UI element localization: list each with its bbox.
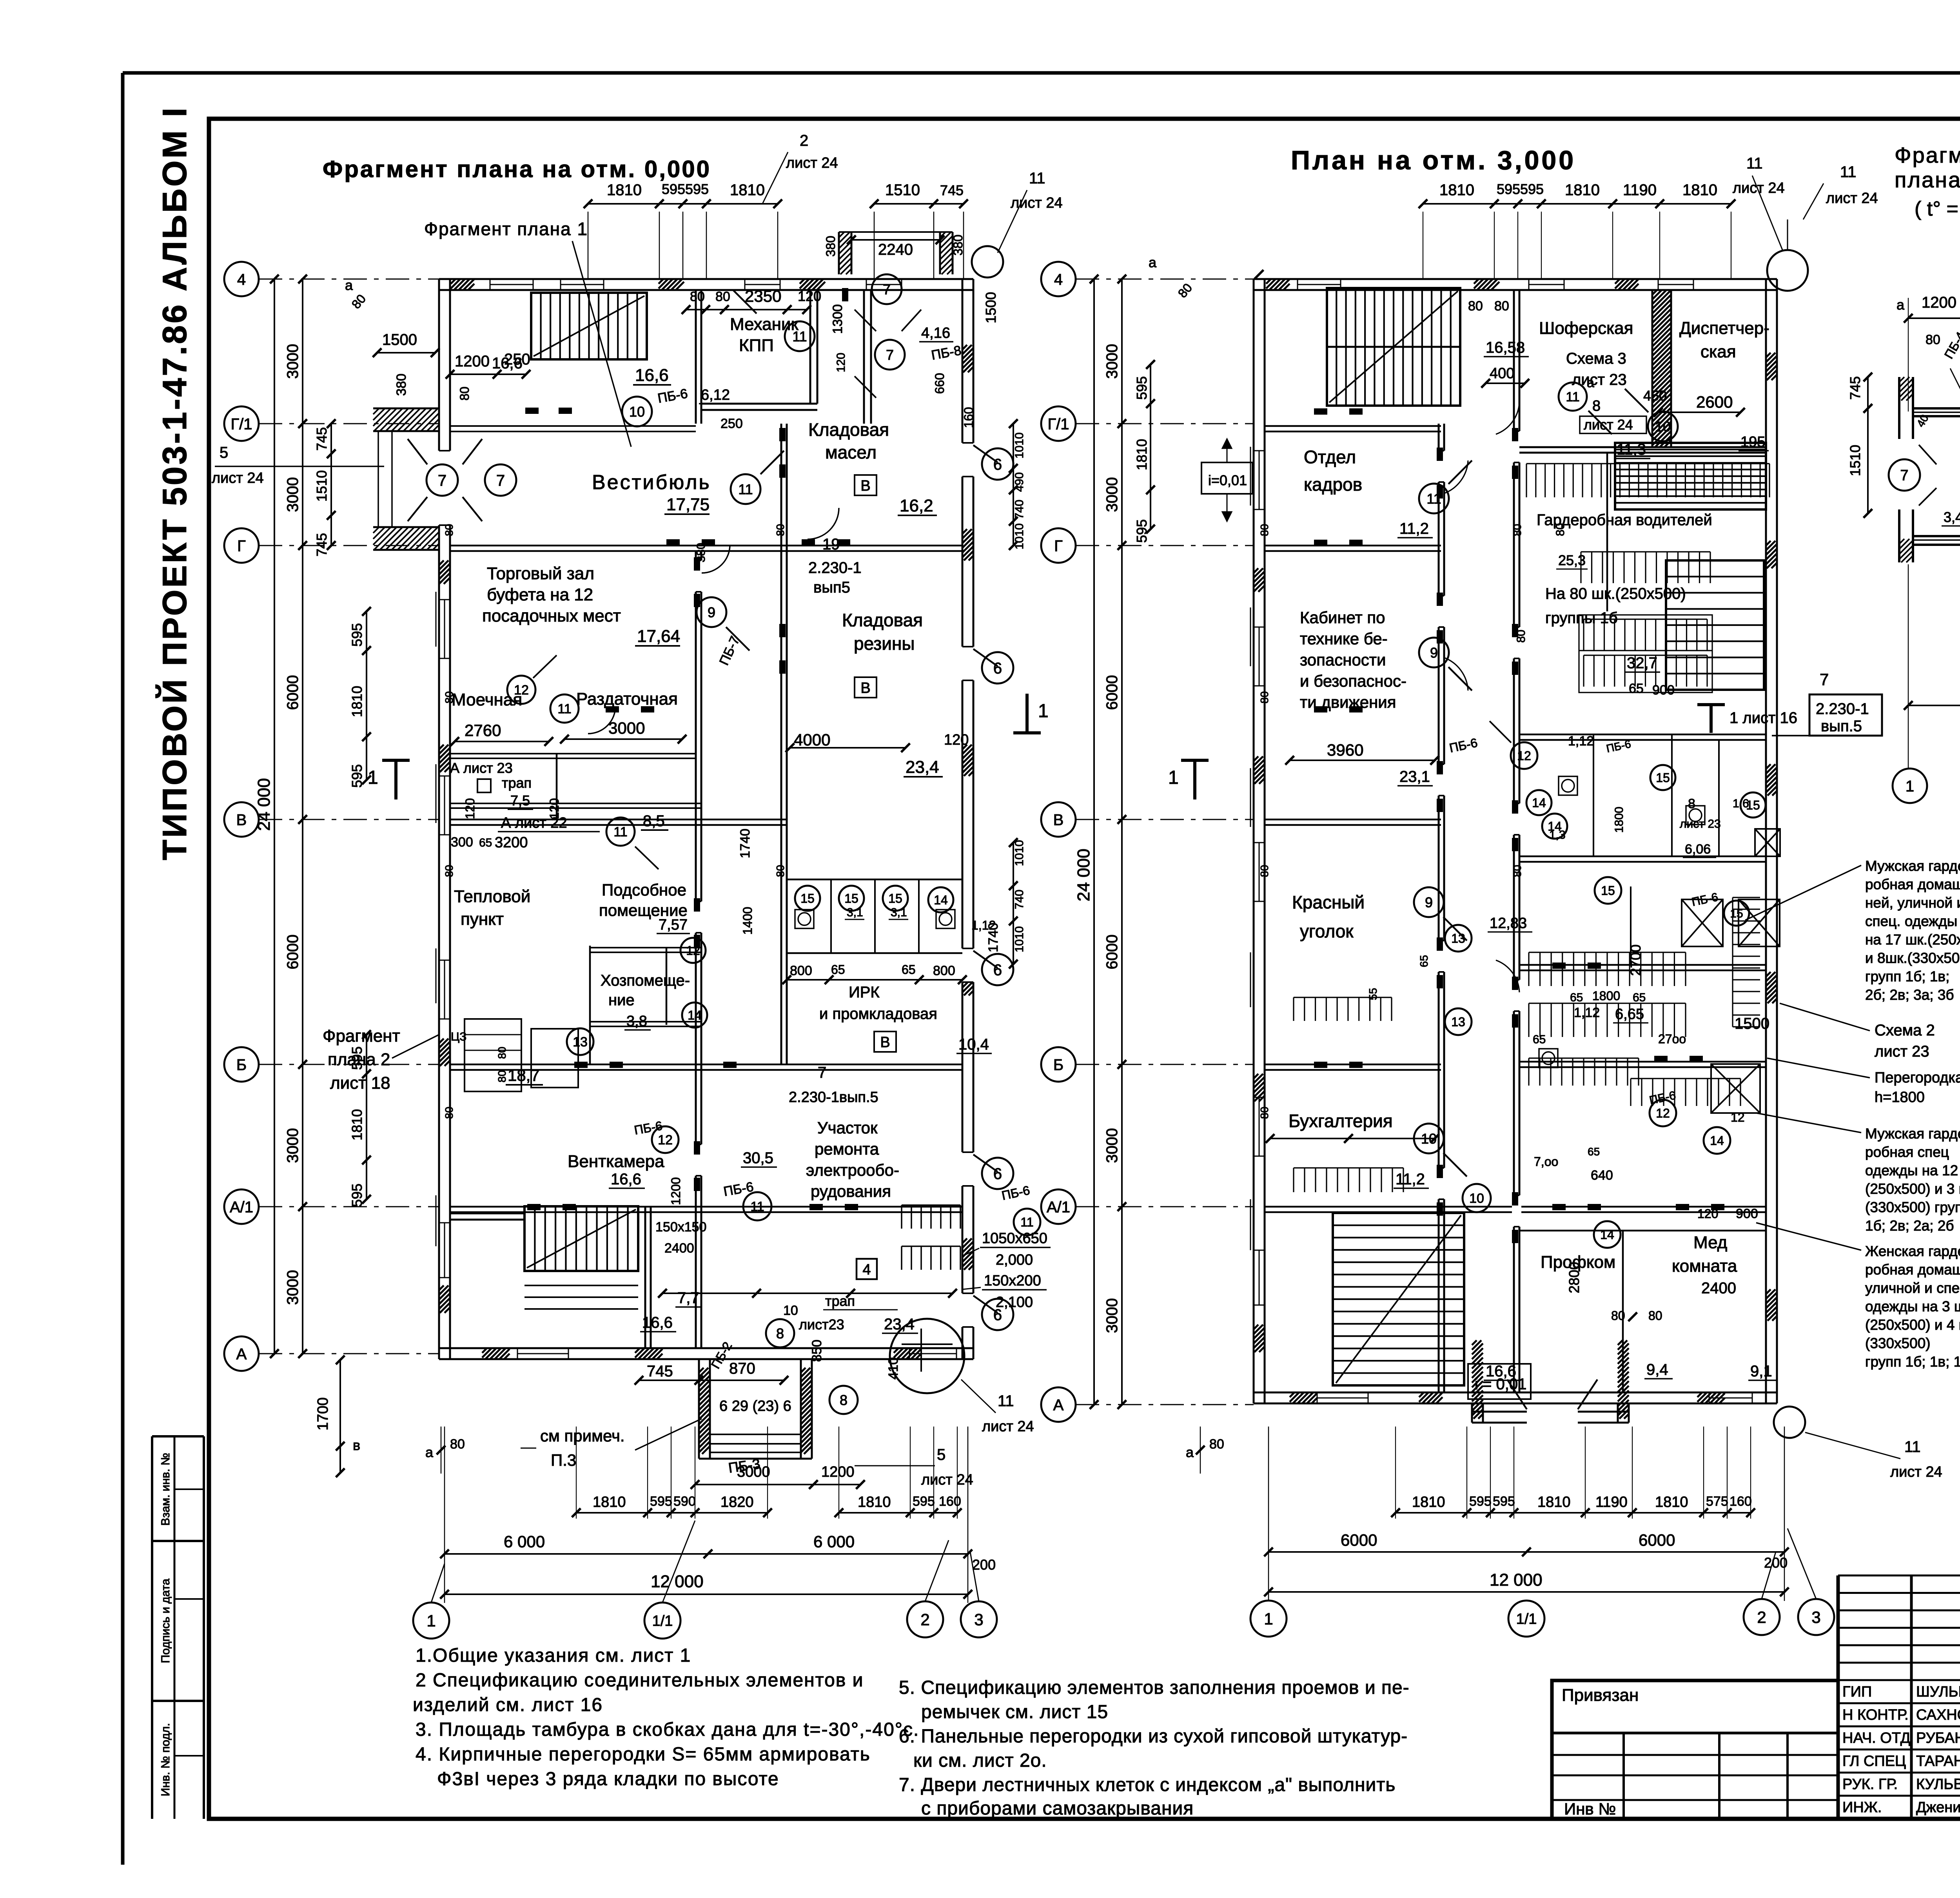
- svg-text:а: а: [1186, 1444, 1194, 1460]
- svg-text:робная домаш-: робная домаш-: [1865, 876, 1960, 892]
- svg-text:16,6: 16,6: [1486, 1363, 1516, 1380]
- svg-text:3000: 3000: [1103, 477, 1121, 512]
- svg-text:65: 65: [1588, 1146, 1600, 1158]
- svg-text:660: 660: [933, 373, 947, 394]
- svg-text:3000: 3000: [608, 719, 645, 737]
- svg-text:1/1: 1/1: [652, 1613, 673, 1630]
- svg-text:1200: 1200: [1922, 294, 1956, 311]
- svg-text:7: 7: [438, 472, 446, 489]
- svg-text:1010: 1010: [1013, 840, 1026, 866]
- svg-text:11: 11: [998, 1392, 1014, 1410]
- svg-text:2.230-1вып.5: 2.230-1вып.5: [789, 1089, 878, 1106]
- svg-text:6: 6: [993, 456, 1002, 473]
- svg-text:1500: 1500: [1735, 1015, 1769, 1032]
- svg-text:лист 24: лист 24: [1890, 1464, 1942, 1480]
- svg-text:65: 65: [1629, 681, 1644, 696]
- svg-text:11: 11: [1746, 155, 1763, 172]
- svg-text:10,4: 10,4: [958, 1036, 989, 1053]
- svg-text:15: 15: [1730, 907, 1743, 920]
- svg-text:7: 7: [1820, 670, 1829, 689]
- svg-text:80: 80: [1494, 299, 1509, 314]
- svg-text:2700: 2700: [1628, 944, 1644, 976]
- svg-text:380: 380: [951, 235, 965, 256]
- svg-text:1: 1: [1168, 767, 1179, 788]
- svg-text:1050x650: 1050x650: [982, 1230, 1047, 1247]
- svg-text:120: 120: [944, 732, 969, 748]
- svg-text:11: 11: [1020, 1215, 1033, 1229]
- svg-text:300: 300: [451, 835, 473, 850]
- svg-text:80: 80: [1515, 630, 1528, 643]
- svg-text:3000: 3000: [284, 477, 301, 512]
- svg-text:595: 595: [1134, 519, 1150, 543]
- svg-text:1: 1: [1264, 1610, 1273, 1628]
- svg-text:1820: 1820: [720, 1494, 754, 1510]
- svg-text:575: 575: [1706, 1494, 1728, 1509]
- svg-text:Отдел: Отдел: [1304, 447, 1356, 467]
- svg-text:пункт: пункт: [461, 910, 504, 929]
- svg-text:65: 65: [831, 963, 845, 977]
- svg-text:3,1: 3,1: [891, 906, 907, 919]
- svg-text:с приборами самозакрывания: с приборами самозакрывания: [921, 1798, 1194, 1819]
- svg-text:А лист 22: А лист 22: [501, 815, 567, 831]
- svg-text:лист 18: лист 18: [330, 1073, 390, 1093]
- svg-text:Мед: Мед: [1693, 1233, 1727, 1252]
- svg-text:1,12: 1,12: [1574, 1005, 1600, 1020]
- svg-text:3: 3: [1811, 1608, 1820, 1626]
- svg-text:2: 2: [1757, 1608, 1766, 1626]
- svg-text:лист 24: лист 24: [1733, 180, 1785, 196]
- svg-text:6000: 6000: [1103, 935, 1121, 970]
- svg-text:24 000: 24 000: [1074, 848, 1093, 901]
- svg-text:Бухгалтерия: Бухгалтерия: [1289, 1111, 1393, 1131]
- svg-text:6: 6: [993, 961, 1002, 979]
- svg-text:1810: 1810: [1439, 181, 1474, 199]
- svg-text:групп 1б; 1в;: групп 1б; 1в;: [1865, 968, 1949, 984]
- svg-text:в: в: [353, 1437, 360, 1453]
- svg-text:1810: 1810: [1565, 181, 1600, 199]
- svg-text:робная домашней: робная домашней: [1865, 1262, 1960, 1278]
- svg-text:трап: трап: [502, 775, 532, 791]
- svg-text:80: 80: [1258, 865, 1270, 877]
- svg-text:400: 400: [1490, 365, 1514, 382]
- svg-text:4: 4: [237, 271, 246, 288]
- svg-text:1200: 1200: [821, 1464, 855, 1480]
- svg-text:КПП: КПП: [739, 336, 774, 355]
- svg-text:группы 1б: группы 1б: [1545, 609, 1618, 627]
- svg-text:Кабинет по: Кабинет по: [1300, 608, 1385, 627]
- svg-text:595: 595: [1469, 1494, 1492, 1509]
- svg-text:18,7: 18,7: [508, 1066, 540, 1084]
- svg-text:лист 24: лист 24: [921, 1472, 973, 1488]
- svg-text:6. Панельные перегородки из: 6. Панельные перегородки из сухой гипсов…: [899, 1726, 1408, 1747]
- svg-text:спец. одежды: спец. одежды: [1865, 913, 1957, 929]
- svg-text:РУБАН: РУБАН: [1916, 1730, 1960, 1746]
- svg-text:80: 80: [443, 1107, 455, 1119]
- svg-text:10: 10: [1655, 419, 1671, 435]
- svg-text:Кладовая: Кладовая: [842, 610, 923, 630]
- svg-text:ней, уличной и: ней, уличной и: [1865, 895, 1960, 911]
- svg-text:Б: Б: [236, 1056, 247, 1073]
- svg-text:7: 7: [1900, 468, 1908, 484]
- svg-text:11: 11: [1029, 170, 1045, 187]
- svg-text:12: 12: [1731, 1110, 1745, 1124]
- svg-text:65: 65: [1533, 1033, 1546, 1046]
- svg-text:380: 380: [824, 236, 838, 257]
- svg-text:32,7: 32,7: [1627, 654, 1657, 672]
- svg-text:195: 195: [1740, 434, 1765, 450]
- svg-text:14: 14: [1600, 1228, 1614, 1242]
- svg-text:2,100: 2,100: [996, 1294, 1033, 1311]
- svg-text:1190: 1190: [1595, 1494, 1628, 1510]
- svg-text:а: а: [1149, 254, 1157, 270]
- svg-text:ТАРАН: ТАРАН: [1916, 1753, 1960, 1769]
- svg-text:80: 80: [1648, 1309, 1662, 1323]
- svg-text:5: 5: [220, 444, 228, 461]
- svg-text:1,6: 1,6: [1733, 797, 1749, 810]
- svg-text:14: 14: [1532, 796, 1546, 810]
- svg-text:и промкладовая: и промкладовая: [819, 1005, 937, 1022]
- svg-text:65: 65: [902, 963, 916, 977]
- svg-text:450: 450: [1643, 388, 1667, 404]
- svg-text:ЦЗ: ЦЗ: [451, 1030, 466, 1043]
- svg-text:11,2: 11,2: [1399, 520, 1429, 537]
- svg-text:16,6: 16,6: [635, 366, 669, 385]
- svg-text:80: 80: [1468, 299, 1483, 314]
- svg-text:8: 8: [1688, 796, 1695, 811]
- svg-text:1010: 1010: [1013, 432, 1026, 459]
- svg-text:лист 24: лист 24: [1826, 190, 1878, 207]
- svg-text:595: 595: [1497, 181, 1520, 197]
- svg-text:(250х500) и 3 шк.: (250х500) и 3 шк.: [1865, 1181, 1960, 1197]
- svg-text:6 000: 6 000: [813, 1532, 855, 1551]
- svg-text:электрообо-: электрообо-: [806, 1161, 899, 1179]
- svg-text:80: 80: [690, 289, 705, 304]
- svg-text:120: 120: [798, 288, 821, 304]
- svg-text:В: В: [860, 478, 870, 494]
- svg-text:1740: 1740: [986, 923, 1001, 952]
- svg-text:зопасности: зопасности: [1300, 651, 1386, 669]
- svg-text:6,12: 6,12: [701, 387, 730, 403]
- svg-text:Торговый зал: Торговый зал: [487, 564, 594, 583]
- svg-text:буфета на 12: буфета на 12: [487, 585, 593, 604]
- svg-text:1010: 1010: [1013, 523, 1026, 549]
- svg-text:80: 80: [1554, 523, 1567, 536]
- svg-text:12: 12: [658, 1133, 673, 1148]
- svg-text:1,12: 1,12: [1568, 734, 1594, 749]
- svg-text:i=0,01: i=0,01: [1208, 472, 1247, 488]
- svg-text:2: 2: [920, 1610, 929, 1629]
- svg-text:2 Спецификацию соединительных: 2 Спецификацию соединительных элементов …: [416, 1670, 864, 1691]
- svg-text:1800: 1800: [1592, 989, 1620, 1003]
- svg-text:лист 23: лист 23: [1875, 1043, 1929, 1060]
- svg-text:лист 24: лист 24: [212, 470, 264, 486]
- svg-text:1740: 1740: [738, 828, 753, 858]
- svg-text:27оо: 27оо: [1658, 1032, 1686, 1046]
- svg-text:13: 13: [1451, 1015, 1465, 1029]
- svg-text:80: 80: [774, 865, 786, 877]
- svg-text:55: 55: [1367, 988, 1379, 1000]
- svg-text:Хозпомеще-: Хозпомеще-: [601, 972, 690, 989]
- svg-text:7,оо: 7,оо: [1534, 1155, 1558, 1169]
- svg-text:3000: 3000: [1103, 344, 1121, 379]
- svg-text:а: а: [1587, 375, 1594, 390]
- svg-text:65: 65: [1570, 991, 1583, 1004]
- svg-text:7,57: 7,57: [659, 917, 688, 933]
- svg-text:1810: 1810: [593, 1494, 626, 1510]
- svg-text:200: 200: [972, 1557, 996, 1573]
- svg-text:Кладовая: Кладовая: [808, 419, 889, 440]
- svg-text:80: 80: [715, 289, 730, 304]
- svg-text:1400: 1400: [740, 907, 755, 935]
- svg-text:1300: 1300: [830, 304, 845, 334]
- svg-text:11,2: 11,2: [1396, 1171, 1425, 1188]
- svg-text:1190: 1190: [1623, 181, 1657, 199]
- svg-text:3960: 3960: [1327, 741, 1363, 759]
- svg-text:на 17 шк.(250х600): на 17 шк.(250х600): [1865, 932, 1960, 948]
- svg-text:1810: 1810: [1682, 181, 1717, 199]
- svg-text:380: 380: [394, 373, 409, 396]
- svg-text:2400: 2400: [664, 1241, 694, 1256]
- svg-text:1500: 1500: [382, 331, 417, 348]
- svg-text:1810: 1810: [349, 686, 365, 717]
- svg-text:РУК. ГР.: РУК. ГР.: [1842, 1776, 1898, 1793]
- svg-text:10: 10: [1469, 1191, 1484, 1206]
- svg-text:6000: 6000: [1103, 675, 1121, 710]
- svg-text:ШУЛЬГИН: ШУЛЬГИН: [1916, 1684, 1960, 1700]
- svg-text:15: 15: [800, 892, 815, 906]
- svg-text:595: 595: [349, 623, 365, 647]
- svg-text:6: 6: [993, 660, 1002, 677]
- svg-text:14: 14: [934, 893, 948, 907]
- svg-text:Фрагмент: Фрагмент: [1895, 143, 1960, 167]
- svg-text:490: 490: [1013, 472, 1026, 492]
- svg-text:1,3: 1,3: [1549, 828, 1566, 841]
- svg-text:740: 740: [1013, 500, 1026, 519]
- svg-text:150x150: 150x150: [655, 1220, 706, 1235]
- svg-text:16,6: 16,6: [611, 1171, 641, 1188]
- svg-text:7,7: 7,7: [677, 1289, 699, 1307]
- svg-text:плана: плана: [1895, 167, 1960, 192]
- svg-text:Тепловой: Тепловой: [454, 887, 530, 906]
- svg-text:ГЛ СПЕЦ: ГЛ СПЕЦ: [1842, 1753, 1906, 1769]
- svg-text:Фрагмент плана на отм. 0,00: Фрагмент плана на отм. 0,000: [323, 156, 711, 182]
- svg-text:Фрагмент: Фрагмент: [323, 1026, 400, 1046]
- svg-text:3. Площадь тамбура в скобках: 3. Площадь тамбура в скобках дана для t=…: [416, 1719, 919, 1740]
- svg-text:вып5: вып5: [813, 579, 850, 596]
- svg-text:Г: Г: [237, 537, 246, 555]
- svg-text:3000: 3000: [1103, 1128, 1121, 1163]
- svg-text:6: 6: [993, 1165, 1002, 1182]
- svg-text:лист 23: лист 23: [1680, 818, 1721, 830]
- svg-text:80: 80: [1926, 332, 1940, 347]
- svg-text:1200: 1200: [455, 353, 490, 370]
- svg-text:1510: 1510: [314, 470, 330, 502]
- svg-text:КУЛЬВЕЦ: КУЛЬВЕЦ: [1916, 1776, 1960, 1793]
- svg-text:5. Спецификацию элементов за: 5. Спецификацию элементов заполнения про…: [899, 1677, 1410, 1698]
- svg-text:5: 5: [937, 1446, 946, 1463]
- svg-text:1810: 1810: [730, 181, 765, 199]
- svg-text:2350: 2350: [745, 287, 781, 305]
- svg-text:ИРК: ИРК: [849, 984, 880, 1001]
- svg-text:120: 120: [463, 798, 477, 819]
- svg-text:80: 80: [443, 865, 455, 877]
- svg-text:1500: 1500: [983, 292, 999, 323]
- svg-text:6000: 6000: [284, 675, 301, 710]
- svg-text:80: 80: [443, 691, 455, 703]
- svg-text:1: 1: [1038, 701, 1049, 721]
- svg-text:рудования: рудования: [811, 1182, 891, 1200]
- svg-text:1810: 1810: [349, 1109, 365, 1140]
- svg-text:ГИП: ГИП: [1842, 1684, 1872, 1700]
- svg-text:16,58: 16,58: [1486, 339, 1525, 356]
- svg-text:640: 640: [1591, 1168, 1613, 1183]
- svg-text:595: 595: [1520, 181, 1544, 197]
- svg-text:групп 1б; 1в; 1б.: групп 1б; 1в; 1б.: [1865, 1354, 1960, 1370]
- svg-text:595: 595: [349, 1046, 365, 1070]
- svg-text:9,1: 9,1: [1750, 1363, 1772, 1380]
- svg-text:( t° = -40): ( t° = -40): [1915, 198, 1960, 220]
- svg-text:Вестибюль: Вестибюль: [592, 471, 711, 494]
- svg-text:745: 745: [647, 1363, 673, 1380]
- svg-text:и 8шк.(330х500): и 8шк.(330х500): [1865, 950, 1960, 966]
- svg-text:Диспетчер-: Диспетчер-: [1679, 319, 1769, 338]
- svg-text:6,06: 6,06: [1685, 842, 1711, 857]
- svg-text:3000: 3000: [284, 1270, 301, 1305]
- svg-text:80: 80: [1209, 1437, 1224, 1452]
- svg-text:80: 80: [457, 386, 472, 401]
- svg-text:410: 410: [886, 1357, 901, 1380]
- svg-text:Схема 2: Схема 2: [1875, 1022, 1935, 1039]
- svg-text:3: 3: [974, 1610, 983, 1629]
- svg-text:9: 9: [1430, 645, 1438, 661]
- svg-text:1700: 1700: [315, 1397, 331, 1430]
- svg-text:80: 80: [496, 1070, 508, 1082]
- svg-text:3000: 3000: [284, 344, 301, 379]
- svg-text:вып.5: вып.5: [1821, 718, 1862, 735]
- svg-text:11: 11: [738, 481, 753, 497]
- svg-text:ние: ние: [608, 992, 635, 1009]
- svg-text:6000: 6000: [1639, 1531, 1675, 1549]
- svg-text:4000: 4000: [794, 731, 830, 749]
- svg-text:1510: 1510: [885, 181, 920, 199]
- svg-text:3000: 3000: [737, 1464, 770, 1480]
- svg-text:2400: 2400: [1701, 1280, 1736, 1297]
- svg-text:3000: 3000: [1103, 1298, 1121, 1333]
- svg-text:робная спец: робная спец: [1865, 1144, 1949, 1160]
- svg-text:595: 595: [349, 764, 365, 788]
- svg-text:590: 590: [673, 1494, 696, 1509]
- svg-text:В: В: [880, 1034, 890, 1051]
- svg-text:1510: 1510: [1847, 445, 1863, 476]
- svg-text:7: 7: [883, 281, 891, 297]
- svg-text:1б; 2в; 2а; 2б: 1б; 2в; 2а; 2б: [1865, 1218, 1954, 1234]
- svg-text:Механик: Механик: [730, 315, 799, 334]
- svg-text:Мужская гарде-: Мужская гарде-: [1865, 858, 1960, 874]
- svg-text:1200: 1200: [669, 1177, 683, 1205]
- svg-text:Мужская гарде-: Мужская гарде-: [1865, 1126, 1960, 1142]
- svg-text:8: 8: [840, 1392, 848, 1408]
- svg-text:11: 11: [792, 328, 807, 344]
- svg-text:11: 11: [1840, 163, 1857, 181]
- svg-text:2: 2: [800, 132, 808, 149]
- svg-text:1010: 1010: [1013, 926, 1026, 952]
- svg-text:Схема 3: Схема 3: [1566, 350, 1626, 367]
- svg-text:1810: 1810: [1134, 439, 1150, 470]
- svg-text:250: 250: [720, 416, 743, 431]
- svg-text:13: 13: [1451, 932, 1465, 946]
- svg-text:Привязан: Привязан: [1562, 1686, 1639, 1705]
- svg-text:Подпись и дата: Подпись и дата: [159, 1579, 172, 1663]
- svg-text:12: 12: [1656, 1106, 1670, 1120]
- svg-text:595: 595: [1493, 1494, 1515, 1509]
- svg-text:745: 745: [314, 533, 330, 557]
- svg-text:2600: 2600: [1696, 393, 1733, 411]
- svg-text:уголок: уголок: [1300, 921, 1354, 941]
- svg-text:и безопаснос-: и безопаснос-: [1300, 672, 1406, 690]
- svg-text:12 000: 12 000: [651, 1572, 704, 1591]
- svg-text:6000: 6000: [1341, 1531, 1377, 1549]
- svg-text:80: 80: [443, 524, 455, 536]
- svg-text:595: 595: [662, 181, 685, 197]
- svg-text:12 000: 12 000: [1490, 1570, 1543, 1590]
- svg-text:850: 850: [809, 1340, 824, 1362]
- svg-text:Шоферская: Шоферская: [1539, 319, 1633, 338]
- svg-text:11,3: 11,3: [1617, 441, 1646, 458]
- svg-text:Взам. инв. №: Взам. инв. №: [159, 1453, 172, 1526]
- svg-text:ремонта: ремонта: [815, 1140, 879, 1158]
- svg-text:6000: 6000: [284, 935, 301, 970]
- svg-text:595: 595: [650, 1494, 672, 1509]
- svg-text:4. Кирпичные перегородки S=: 4. Кирпичные перегородки S= 65мм армиров…: [416, 1744, 871, 1765]
- svg-text:1.Общие указания см. ли: 1.Общие указания см. лист 1: [416, 1645, 691, 1666]
- svg-text:3000: 3000: [284, 1128, 301, 1163]
- svg-text:3200: 3200: [495, 834, 528, 851]
- svg-text:745: 745: [1847, 376, 1863, 400]
- svg-text:8: 8: [776, 1325, 784, 1341]
- svg-text:150x200: 150x200: [984, 1273, 1041, 1289]
- svg-text:595: 595: [685, 181, 709, 197]
- svg-text:160: 160: [962, 407, 976, 428]
- svg-text:6 000: 6 000: [504, 1532, 545, 1551]
- svg-text:На 80 шк.(250х500): На 80 шк.(250х500): [1545, 585, 1686, 602]
- svg-text:1/1: 1/1: [1516, 1611, 1537, 1628]
- svg-text:6 29 (23) 6: 6 29 (23) 6: [719, 1398, 791, 1414]
- svg-text:11: 11: [1904, 1438, 1921, 1456]
- svg-text:870: 870: [729, 1360, 755, 1377]
- svg-text:80: 80: [1258, 691, 1270, 703]
- svg-text:1800: 1800: [1613, 807, 1626, 833]
- svg-text:Г/1: Г/1: [230, 415, 252, 433]
- svg-text:В: В: [1053, 811, 1064, 828]
- svg-text:4,16: 4,16: [921, 325, 950, 341]
- svg-text:ТИПОВОЙ ПРОЕКТ 503-1-47.86: ТИПОВОЙ ПРОЕКТ 503-1-47.86 АЛЬБОМ I: [156, 106, 194, 860]
- svg-text:15: 15: [1601, 884, 1615, 898]
- svg-text:4: 4: [862, 1262, 871, 1278]
- svg-text:23,4: 23,4: [906, 758, 939, 777]
- svg-text:Г: Г: [1054, 537, 1063, 555]
- svg-text:160: 160: [1730, 1494, 1752, 1509]
- svg-text:резины: резины: [854, 633, 915, 654]
- svg-text:2760: 2760: [465, 721, 501, 740]
- svg-text:1810: 1810: [858, 1494, 891, 1510]
- svg-text:кадров: кадров: [1304, 474, 1362, 495]
- svg-text:595: 595: [913, 1494, 935, 1509]
- svg-text:900: 900: [1736, 1206, 1758, 1221]
- svg-text:16,2: 16,2: [900, 496, 933, 515]
- svg-text:1810: 1810: [1412, 1494, 1445, 1510]
- svg-text:16,6: 16,6: [642, 1314, 673, 1331]
- svg-text:740: 740: [1013, 890, 1026, 909]
